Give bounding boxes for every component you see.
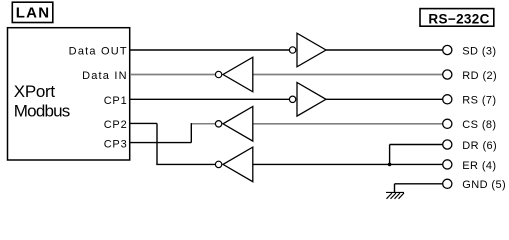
wire CS inverter input to CS terminal [253,123,443,125]
svg-text:CP1: CP1 [104,95,128,107]
terminal GND [443,179,452,188]
wire CP2 vertical drop [156,123,158,164]
ground symbol [386,192,404,198]
svg-text:RS−232C: RS−232C [428,12,489,27]
svg-text:Data OUT: Data OUT [69,46,128,58]
svg-text:Data IN: Data IN [82,70,128,82]
wire CP3 stub [130,142,191,144]
svg-text:LAN: LAN [16,4,50,21]
wire inverter input to RD terminal [253,74,443,76]
LAN label box [12,2,53,22]
wire buffer output to RS terminal [326,98,443,100]
terminal ER [443,160,452,169]
wire DR vertical to ER line [389,145,391,165]
svg-text:XPort: XPort [14,82,56,101]
svg-text:SD (3): SD (3) [462,45,496,57]
wire Data OUT to buffer input [130,49,289,51]
wire GND vertical [394,184,396,193]
svg-text:ER (4): ER (4) [462,160,496,172]
terminal RS [443,95,452,104]
svg-text:Modbus: Modbus [14,101,70,120]
terminal DR [443,140,452,149]
svg-text:CP2: CP2 [104,119,128,131]
wire GND terminal to ground [395,183,443,185]
buffer U2 (Data OUT, inverting input bubble) [289,33,326,67]
inverter U6 (ER, left-pointing) [215,147,252,182]
buffer U4 (CP1/RS, inverting input bubble) [289,83,326,117]
wire DR terminal branch horizontal [390,144,443,146]
junction dot DR/ER [388,163,392,167]
wire CP2 stub [130,122,157,124]
svg-text:CP3: CP3 [104,138,128,150]
wire buffer output to SD terminal [326,49,443,51]
terminal CS [443,119,452,128]
svg-text:CS (8): CS (8) [462,119,496,131]
wire CP2 to ER inverter output [156,163,215,165]
svg-text:DR (6): DR (6) [462,140,497,152]
wire ER inverter input to ER terminal [253,163,443,165]
svg-text:RD (2): RD (2) [462,70,497,82]
inverter U3 (Data IN, left-pointing) [215,57,252,92]
svg-text:GND (5): GND (5) [462,179,506,191]
terminal SD [443,45,452,54]
RS-232C label box [420,9,494,27]
terminal RD [443,70,452,79]
wire CP3 vertical rise to CS node [190,123,192,143]
wire CS inverter output to node [191,123,215,125]
wire Data IN to inverter bubble [130,74,215,76]
XPort Modbus box U1 [8,28,130,160]
wire CP1 to buffer input [130,98,289,100]
svg-text:RS (7): RS (7) [462,95,496,107]
inverter U5 (CS, left-pointing) [215,107,252,142]
